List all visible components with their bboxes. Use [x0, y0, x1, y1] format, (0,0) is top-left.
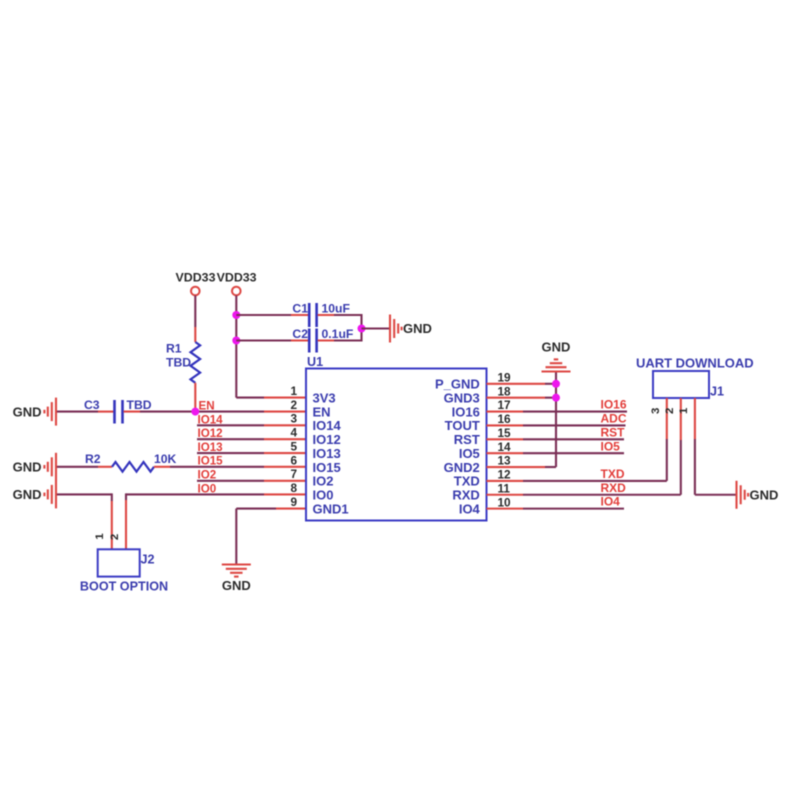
ground GND (top, right of C1/C2) [390, 315, 432, 343]
svg-text:GND: GND [13, 404, 42, 419]
wire IO2 to pin 7 [197, 480, 306, 482]
wire C1 right to gnd corner [318, 314, 362, 316]
svg-text:10K: 10K [154, 452, 177, 466]
wire R1 bottom to EN node [194, 383, 196, 412]
J1 pin number 1 [678, 407, 690, 414]
power flag VDD33 (right) [217, 271, 257, 296]
J1 pin number 2 [664, 408, 676, 414]
svg-text:TBD: TBD [166, 356, 191, 370]
wire ADC stub [487, 424, 626, 426]
svg-text:TXD: TXD [601, 467, 625, 481]
svg-text:C1: C1 [292, 302, 308, 316]
svg-text:0.1uF: 0.1uF [322, 327, 354, 341]
net label IO13 [198, 441, 224, 454]
svg-text:7: 7 [290, 467, 297, 481]
wire IO12 to pin 4 [197, 438, 306, 440]
wire IO0 to pin 8 with J2 pin 2 drop [126, 493, 306, 549]
wire GND to R2 [57, 466, 112, 468]
U1 pin number 5 [290, 439, 297, 453]
wire RST stub [487, 438, 625, 440]
svg-text:RST: RST [454, 432, 480, 447]
U1 pin number 14 [498, 440, 512, 454]
IC U1 [306, 355, 487, 521]
svg-text:IO14: IO14 [313, 418, 342, 433]
svg-text:GND2: GND2 [444, 460, 480, 475]
svg-text:16: 16 [498, 412, 512, 426]
power flag VDD33 (left) [176, 271, 216, 296]
svg-text:9: 9 [290, 495, 297, 509]
svg-text:IO0: IO0 [198, 482, 217, 495]
svg-text:17: 17 [498, 398, 512, 412]
svg-text:IO13: IO13 [313, 446, 341, 461]
svg-text:IO5: IO5 [459, 446, 480, 461]
svg-text:18: 18 [498, 384, 512, 398]
capacitor C3 TBD [84, 398, 152, 424]
wire pin 13 GND2 stub [487, 466, 557, 468]
ground GND (below pin 9) [222, 565, 251, 594]
svg-text:ADC: ADC [601, 412, 627, 426]
J1 pin number 3 [650, 408, 662, 414]
junction pin 18 gnd [552, 394, 560, 402]
svg-text:J2: J2 [141, 553, 155, 567]
U1 pin number 2 [290, 398, 297, 412]
net label IO15 [198, 455, 224, 468]
svg-text:3: 3 [290, 412, 297, 426]
net label IO14 [198, 413, 224, 426]
svg-text:TBD: TBD [127, 398, 152, 412]
wire RXD to J1 pin 2 [487, 494, 681, 496]
svg-text:GND: GND [542, 340, 571, 355]
svg-text:1: 1 [678, 407, 690, 414]
svg-text:TXD: TXD [454, 474, 480, 489]
net label EN [199, 400, 215, 413]
svg-text:11: 11 [498, 481, 511, 495]
net label TXD [601, 467, 625, 481]
U1 pin number 4 [290, 426, 297, 440]
J2 pin number 2 [109, 534, 121, 540]
net label RST [601, 425, 626, 439]
wire to C2 left [236, 339, 308, 341]
U1 pin number 8 [290, 481, 297, 495]
U1 pin number 19 [498, 371, 512, 385]
svg-text:IO16: IO16 [452, 404, 480, 419]
svg-text:3V3: 3V3 [313, 390, 336, 405]
svg-text:3: 3 [650, 408, 662, 414]
svg-text:10: 10 [498, 495, 512, 509]
svg-text:BOOT OPTION: BOOT OPTION [80, 580, 168, 594]
ground GND (right of J1) [737, 481, 779, 509]
svg-text:4: 4 [290, 426, 297, 440]
wire IO14 to pin 3 [197, 424, 306, 426]
svg-text:12: 12 [498, 468, 512, 482]
resistor R2 10K [85, 452, 177, 472]
wire IO13 to pin 5 [197, 452, 306, 454]
connector J2 [98, 549, 155, 576]
U1 pin number 9 [290, 495, 297, 509]
junction C1/C2 gnd [358, 325, 366, 333]
label BOOT OPTION [80, 580, 168, 594]
svg-text:R2: R2 [85, 452, 101, 466]
J1 pin 3 wire [666, 398, 668, 481]
U1 pin number 11 [498, 481, 511, 495]
svg-text:IO2: IO2 [313, 474, 334, 489]
svg-text:UART DOWNLOAD: UART DOWNLOAD [636, 356, 754, 371]
net label IO4 [601, 495, 621, 509]
U1 pin number 7 [290, 467, 297, 481]
svg-text:IO4: IO4 [459, 501, 481, 516]
svg-text:IO12: IO12 [313, 432, 341, 447]
svg-text:RXD: RXD [601, 481, 627, 495]
U1 pin number 15 [498, 426, 512, 440]
svg-text:EN: EN [313, 404, 331, 419]
U1 pin number 18 [498, 384, 512, 398]
wire VDD33 to R1 top [194, 296, 196, 343]
svg-text:1: 1 [94, 533, 106, 540]
net label IO0 [198, 482, 217, 495]
net label RXD [601, 481, 627, 495]
wire pin 9 GND1 to ground [236, 509, 306, 565]
net label IO2 [198, 469, 217, 482]
junction C1 tap [232, 311, 240, 319]
svg-text:GND: GND [13, 460, 42, 475]
svg-text:C2: C2 [292, 327, 308, 341]
U1 pin number 10 [498, 495, 512, 509]
svg-text:P_GND: P_GND [435, 377, 480, 392]
svg-text:IO13: IO13 [198, 441, 224, 454]
svg-text:EN: EN [199, 400, 215, 413]
svg-text:R1: R1 [166, 342, 182, 356]
U1 pin number 1 [290, 384, 297, 398]
svg-text:GND1: GND1 [313, 501, 349, 516]
svg-text:GND: GND [13, 487, 42, 502]
U1 pin number 17 [498, 398, 512, 412]
svg-text:IO12: IO12 [198, 427, 223, 440]
capacitor C1 10uF [292, 302, 350, 328]
wire C3 to EN node and pin 2 [124, 411, 306, 413]
svg-text:GND: GND [403, 321, 432, 336]
U1 pin number 13 [498, 454, 512, 468]
wire junction to GND symbol [362, 327, 390, 329]
wire R2 to pin 6 IO15 [154, 466, 306, 468]
svg-text:IO0: IO0 [313, 487, 334, 502]
net label IO5 [601, 439, 621, 453]
svg-text:GND: GND [222, 578, 251, 593]
svg-text:14: 14 [498, 440, 512, 454]
wire TXD to J1 pin 3 [487, 480, 667, 482]
ground GND (above gnd bus) [542, 340, 571, 372]
svg-text:GND3: GND3 [444, 390, 480, 405]
svg-text:8: 8 [290, 481, 297, 495]
U1 pin number 16 [498, 412, 512, 426]
wire pin 18 GND3 stub [487, 397, 557, 399]
wire IO4 stub [487, 508, 625, 510]
svg-text:1: 1 [290, 384, 297, 398]
wire GND to C3 [57, 411, 114, 413]
svg-text:2: 2 [109, 534, 121, 540]
resistor R1 (TBD) [166, 342, 200, 383]
svg-text:10uF: 10uF [322, 302, 350, 316]
ground GND (left, EN row) [13, 398, 56, 426]
J1 pin 1 wire to ground [695, 398, 736, 495]
U1 pin number 3 [290, 412, 297, 426]
svg-text:RST: RST [601, 425, 626, 439]
wire corner joining C1 C2 [360, 314, 362, 342]
svg-text:TOUT: TOUT [445, 418, 480, 433]
junction EN node [191, 408, 199, 416]
svg-text:IO15: IO15 [313, 460, 341, 475]
U1 pin number 12 [498, 468, 512, 482]
wire IO16 stub [487, 410, 628, 412]
connector J1 UART DOWNLOAD [636, 356, 754, 399]
svg-text:U1: U1 [307, 355, 323, 369]
J1 pin 2 wire [680, 398, 682, 495]
wire GND to J2 pin 1 [57, 493, 112, 549]
svg-text:RXD: RXD [452, 488, 479, 503]
svg-text:19: 19 [498, 371, 512, 385]
svg-text:2: 2 [290, 398, 297, 412]
svg-text:J1: J1 [710, 385, 724, 399]
svg-text:5: 5 [290, 439, 297, 453]
svg-text:VDD33: VDD33 [176, 271, 216, 285]
ground GND (left, R2 row) [13, 453, 56, 481]
net label IO12 [198, 427, 223, 440]
wire IO5 stub [487, 452, 625, 454]
svg-text:2: 2 [664, 408, 676, 414]
junction C2 tap [232, 337, 240, 345]
capacitor C2 0.1uF [292, 327, 353, 353]
net label IO16 [601, 398, 627, 412]
svg-text:IO5: IO5 [601, 439, 621, 453]
svg-text:IO4: IO4 [601, 495, 621, 509]
svg-text:6: 6 [290, 453, 297, 467]
svg-text:IO2: IO2 [198, 469, 217, 482]
svg-text:IO16: IO16 [601, 398, 627, 412]
wire gnd bus vertical [555, 372, 557, 468]
svg-text:VDD33: VDD33 [217, 271, 257, 285]
net label ADC [601, 412, 627, 426]
wire C2 right to gnd corner [318, 339, 362, 341]
svg-text:C3: C3 [84, 398, 100, 412]
junction pin 19 gnd [552, 380, 560, 388]
U1 pin number 6 [290, 453, 297, 467]
J2 pin number 1 [94, 533, 106, 540]
ground GND (left, J2 row) [13, 480, 56, 508]
wire to C1 left [236, 314, 308, 316]
svg-text:13: 13 [498, 454, 512, 468]
wire pin 19 P_GND stub [487, 383, 557, 385]
svg-text:GND: GND [750, 487, 779, 502]
svg-text:15: 15 [498, 426, 512, 440]
wire VDD33 down to 3V3 pin 1 [236, 296, 306, 398]
